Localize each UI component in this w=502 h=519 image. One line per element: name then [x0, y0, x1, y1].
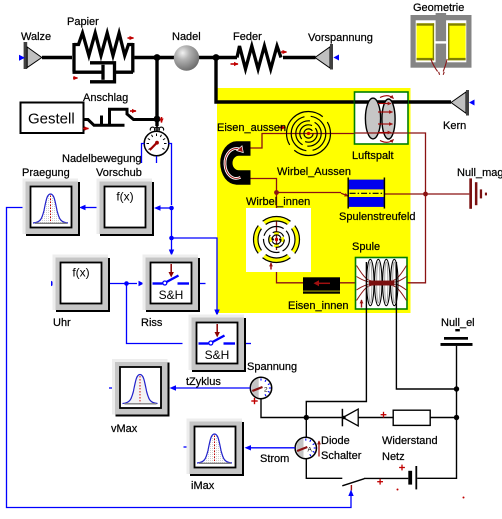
arrow marks on Papier	[128, 37, 134, 39]
yellow magnetic region	[217, 88, 411, 313]
geometry block Geometrie	[411, 13, 472, 75]
block Uhr	[54, 256, 110, 312]
block iMax	[188, 420, 244, 476]
svg-text:S&H: S&H	[205, 348, 230, 362]
svg-text:Eisen_aussen: Eisen_aussen	[217, 122, 286, 134]
backlash element Anschlag	[84, 109, 157, 125]
block S&H 2	[190, 316, 246, 372]
current sensor Strom	[295, 437, 316, 458]
eddy current Wirbel_innen	[246, 208, 311, 272]
svg-text:f(x): f(x)	[72, 266, 89, 280]
arrow mark near Strom	[318, 441, 320, 457]
svg-text:Vorspannung: Vorspannung	[308, 32, 373, 44]
mass Nadel (sphere)	[174, 45, 199, 70]
battery Netz	[408, 471, 412, 485]
svg-text:Null_mag: Null_mag	[457, 167, 502, 179]
iron Eisen_aussen (spiral)	[287, 112, 331, 156]
ground Null_mag	[469, 178, 487, 208]
svg-text:Walze: Walze	[21, 31, 51, 43]
block vMax	[114, 361, 170, 417]
svg-text:Widerstand: Widerstand	[382, 435, 438, 447]
fixed support Vorspannung	[315, 44, 339, 70]
svg-text:Spannung: Spannung	[247, 361, 297, 373]
switch Schalter	[350, 485, 352, 491]
svg-text:Luftspalt: Luftspalt	[352, 150, 394, 162]
wire: mechanical needle line	[42, 58, 451, 120]
svg-text:2: 2	[264, 387, 268, 394]
svg-text:Vorschub: Vorschub	[96, 167, 142, 179]
svg-text:Papier: Papier	[67, 16, 99, 28]
leakage Spulenstreufeld	[348, 178, 384, 209]
node: el junction 2	[454, 386, 459, 391]
ground Null_el	[441, 329, 473, 346]
node: signal junctions	[124, 281, 129, 286]
block Vorschub	[98, 180, 154, 236]
resistor Widerstand	[393, 410, 430, 425]
svg-text:Strom: Strom	[260, 453, 289, 465]
coil Spule	[356, 258, 408, 310]
svg-text:Praegung: Praegung	[22, 167, 70, 179]
svg-text:Geometrie: Geometrie	[413, 2, 464, 14]
svg-text:vMax: vMax	[111, 423, 138, 435]
node C (anschlag junction)	[154, 116, 161, 123]
node: magnetic junction right	[423, 192, 428, 197]
iron Eisen_innen	[303, 277, 361, 293]
svg-text:Nadel: Nadel	[172, 31, 201, 43]
svg-text:Spulenstreufeld: Spulenstreufeld	[339, 211, 415, 223]
svg-text:Wirbel_innen: Wirbel_innen	[246, 196, 310, 208]
svg-text:A: A	[308, 447, 313, 454]
node A (needle-papier junction)	[154, 54, 161, 61]
node B (needle-feder junction)	[213, 54, 220, 61]
svg-text:Null_el: Null_el	[441, 317, 475, 329]
svg-text:Riss: Riss	[141, 317, 163, 329]
block Riss (S&H)	[144, 256, 200, 312]
svg-text:Gestell: Gestell	[28, 111, 75, 128]
wire: magnetic circuit (dark red)	[251, 133, 470, 283]
fixed support Walze	[19, 42, 42, 69]
diode Diode	[342, 409, 358, 427]
position sensor Nadelbewegung (gauge)	[144, 119, 169, 156]
eddy current Wirbel_Aussen (C-magnet)	[220, 141, 250, 184]
node: el junction 1	[304, 415, 309, 420]
svg-text:Wirbel_Aussen: Wirbel_Aussen	[277, 166, 351, 178]
svg-text:tZyklus: tZyklus	[186, 376, 221, 388]
svg-text:Netz: Netz	[382, 451, 405, 463]
svg-text:Eisen_innen: Eisen_innen	[288, 300, 349, 312]
wire: signal connections (blue)	[7, 144, 352, 508]
svg-text:Schalter: Schalter	[321, 450, 362, 462]
node: magnetic junction left	[274, 190, 279, 195]
wire: electrical circuit (black)	[261, 262, 457, 486]
node: el junction 3	[454, 415, 459, 420]
svg-text:iMax: iMax	[191, 480, 215, 492]
voltage sensor Spannung	[250, 377, 271, 398]
svg-text:Diode: Diode	[321, 435, 350, 447]
svg-text:S&H: S&H	[159, 288, 184, 302]
fixed support Kern	[451, 90, 475, 116]
frame box Gestell	[21, 103, 84, 134]
bevel block frames	[0, 0, 1, 1]
plus mark at switch	[377, 479, 383, 485]
plus mark at Widerstand	[381, 412, 387, 418]
minus dots	[397, 489, 399, 491]
svg-text:Uhr: Uhr	[53, 317, 71, 329]
air gap Luftspalt	[355, 92, 409, 144]
svg-text:Nadelbewegung: Nadelbewegung	[62, 153, 142, 165]
spring-damper Papier	[73, 33, 134, 82]
block Praegung	[24, 180, 80, 236]
svg-text:Spule: Spule	[352, 241, 380, 253]
wire: gauge pins (blue)	[142, 144, 157, 164]
svg-text:f(x): f(x)	[116, 190, 133, 204]
svg-text:Feder: Feder	[233, 31, 262, 43]
spring Feder	[237, 46, 281, 69]
svg-text:Anschlag: Anschlag	[83, 92, 128, 104]
plus mark at battery	[399, 465, 405, 471]
svg-text:Kern: Kern	[443, 120, 466, 132]
plus mark at Spannung	[251, 398, 257, 404]
